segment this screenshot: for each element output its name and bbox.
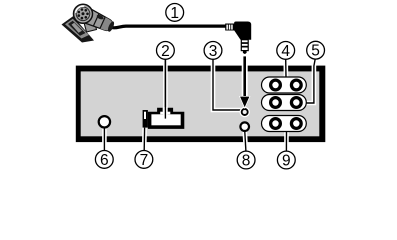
- connector socket 6 (antenna jack): [99, 116, 110, 127]
- RCA output group: row 2 (oval 5): [262, 95, 307, 111]
- wire leader 3: [213, 59, 241, 110]
- wire leader 2: [163, 59, 168, 118]
- svg-text:5: 5: [311, 43, 320, 60]
- svg-text:4: 4: [281, 43, 290, 60]
- 3.5mm right-angle plug: [225, 22, 251, 55]
- mic bracket: [84, 21, 97, 33]
- wire leader 6: [102, 126, 107, 150]
- connector 7 (wiring harness socket): [143, 60, 185, 129]
- label 9: [277, 151, 295, 169]
- RCA output group: row 1 (oval 4): [262, 77, 307, 93]
- panel (head unit rear): [76, 66, 325, 143]
- wire leader 9: [284, 131, 289, 152]
- mic body: [81, 7, 117, 35]
- mic head: [74, 4, 93, 23]
- wire leader 7: [142, 128, 147, 151]
- label 5: [307, 41, 325, 59]
- mic input jack (small, arrow target): [240, 107, 250, 117]
- jack 8 (wired remote input): [240, 122, 249, 131]
- microphone cable: [112, 26, 226, 28]
- wire leader 5: [307, 59, 316, 103]
- svg-text:6: 6: [100, 152, 109, 169]
- svg-text:9: 9: [282, 153, 291, 170]
- svg-text:1: 1: [170, 5, 179, 22]
- RCA output group: row 3 (oval 9): [262, 116, 307, 132]
- mic clip plate: [62, 16, 95, 42]
- label 7: [135, 151, 153, 169]
- wire leader 8: [245, 130, 246, 151]
- wire leader 4: [283, 59, 288, 78]
- label 2: [157, 42, 175, 60]
- svg-text:7: 7: [140, 152, 149, 169]
- label 1: [166, 4, 184, 22]
- label 8: [237, 151, 255, 169]
- label 4: [277, 42, 295, 60]
- svg-text:3: 3: [209, 43, 218, 60]
- svg-text:2: 2: [161, 43, 170, 60]
- label 6: [95, 151, 113, 169]
- label 3: [204, 42, 222, 60]
- arrow from plug to mic jack: [240, 56, 249, 107]
- svg-text:8: 8: [242, 153, 251, 170]
- microphone with clip: [62, 4, 117, 42]
